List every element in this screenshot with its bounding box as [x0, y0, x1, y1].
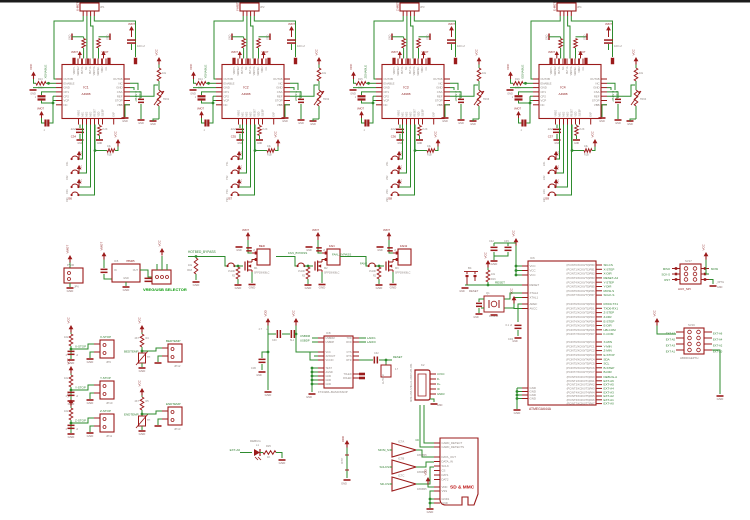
svg-text:XENABLE: XENABLE [44, 65, 48, 79]
wire BEDTEMP to connector [142, 348, 162, 351]
svg-text:RESET: RESET [255, 108, 257, 116]
wire gnd Y [193, 87, 216, 89]
svg-text:SENSE1: SENSE1 [258, 66, 260, 76]
svg-text:6L1: 6L1 [290, 339, 295, 342]
svg-text:EXT-A2: EXT-A2 [713, 344, 723, 348]
svg-text:JP6: JP6 [74, 285, 79, 289]
wire X motor OUT2B [54, 16, 83, 79]
svg-text:R2: R2 [373, 275, 377, 278]
svg-text:ENDTEMP: ENDTEMP [124, 413, 139, 417]
svg-text:JP10: JP10 [106, 401, 113, 405]
wire cp2 X [53, 95, 56, 97]
jumper MS3 X [71, 186, 73, 188]
svg-text:100 uf: 100 uf [137, 44, 145, 48]
svg-text:10k: 10k [639, 72, 644, 75]
resistor R2B 10k sleep [255, 125, 267, 151]
resistor R4 4.7k BEDTEMP [141, 333, 143, 335]
svg-text:GND: GND [87, 434, 95, 438]
wire VMOT FAN2 [389, 240, 393, 253]
svg-text:DAT2: DAT2 [442, 478, 449, 482]
power VCC selector [160, 248, 165, 252]
svg-text:10k: 10k [64, 410, 69, 413]
svg-text:GND: GND [341, 482, 347, 486]
svg-text:JS7: JS7 [227, 197, 232, 201]
svg-text:DATA_OUT: DATA_OUT [442, 455, 457, 459]
capacitor bulk Y 100uf [287, 39, 296, 41]
capacitor C22 logic [202, 92, 217, 95]
svg-text:GND: GND [530, 397, 536, 401]
op-amp IC2 A4988 body [222, 65, 284, 119]
wire cp2 E [530, 95, 533, 97]
wire E motor OUT2B [531, 16, 560, 79]
svg-text:GND: GND [298, 122, 304, 125]
pads Z driver top pins [392, 58, 395, 65]
ground trimmer X [150, 120, 157, 122]
jumper gate M2 [297, 265, 299, 267]
ground IC8 [309, 393, 316, 395]
svg-text:GND: GND [470, 123, 476, 126]
wire vcp Z [373, 100, 376, 102]
svg-text:VCC: VCC [81, 179, 83, 184]
svg-text:JP3: JP3 [420, 5, 425, 9]
svg-text:GND: GND [87, 401, 95, 405]
svg-text:VMOT: VMOT [37, 108, 44, 111]
connector BEDTEMP JP12 [168, 344, 182, 362]
ground BEDTEMP [139, 367, 146, 369]
ground X-STOP [68, 359, 75, 361]
svg-text:UVCC: UVCC [437, 372, 445, 376]
resistor 10k ref E [635, 65, 637, 69]
wire buffer B out [416, 462, 434, 467]
power VCC BEDTEMP [140, 325, 145, 329]
svg-text:VMOT1: VMOT1 [234, 66, 236, 75]
wire VCC IC6 [516, 246, 522, 276]
svg-text:SENSE1: SENSE1 [418, 66, 420, 76]
svg-text:MS2: MS2 [87, 111, 89, 116]
ground K2 shield [430, 399, 434, 402]
svg-text:SLEEP: SLEEP [263, 109, 265, 117]
svg-text:SCK-S: SCK-S [661, 273, 670, 277]
connector X-MOT JP1 [80, 3, 99, 11]
svg-text:GND: GND [87, 360, 95, 364]
capacitor ref Z [450, 92, 461, 98]
svg-text:(PCINT4/XCK0/T4)PA4: (PCINT4/XCK0/T4)PA4 [567, 390, 595, 394]
ground Z-STOP [68, 433, 75, 435]
ground logic X [30, 89, 37, 91]
svg-text:GND: GND [279, 461, 287, 465]
pins IC3 left [376, 78, 382, 80]
svg-text:GND: GND [507, 93, 513, 96]
svg-text:VCC: VCC [653, 309, 657, 316]
ground SD [427, 508, 434, 510]
svg-text:(PCINT3/XCK0/T3)PA3: (PCINT3/XCK0/T3)PA3 [567, 387, 595, 391]
resistor pulldown M1 10K [237, 265, 240, 268]
svg-text:C11: C11 [106, 66, 108, 71]
svg-text:VMOTIA: VMOTIA [413, 66, 416, 75]
svg-text:IC7B: IC7B [398, 457, 404, 461]
svg-text:.22uf: .22uf [70, 127, 76, 131]
wire regulator out [140, 270, 152, 277]
svg-text:VBB: VBB [437, 103, 443, 107]
wire debug gnd [276, 453, 282, 459]
svg-text:(PCINT0/XCK0/T0)PB0: (PCINT0/XCK0/T0)PB0 [566, 263, 595, 267]
svg-text:EXT-A5: EXT-A5 [666, 338, 676, 342]
capacitor C34 .22uf [79, 125, 81, 129]
svg-text:VBB: VBB [277, 103, 283, 107]
svg-text:VDD: VDD [424, 468, 428, 475]
resistor RXLED [359, 377, 365, 380]
svg-text:SFP30N06LC: SFP30N06LC [254, 272, 270, 275]
svg-text:CTS: CTS [347, 351, 352, 354]
svg-text:VMOT1: VMOT1 [394, 66, 396, 75]
svg-text:GND: GND [122, 120, 128, 123]
wire drain M1 [252, 259, 255, 262]
wire Z motor OUT2A [406, 16, 408, 59]
svg-text:VCC: VCC [401, 165, 403, 170]
svg-text:1: 1 [195, 97, 197, 99]
resistor sense ZA 0.2 [402, 39, 406, 49]
resistor sense EB 0.2 [576, 36, 588, 38]
svg-text:GND: GND [267, 34, 270, 40]
svg-text:VMOTIA: VMOTIA [93, 66, 96, 75]
pins IC6 left [522, 265, 528, 267]
power VCC MS3 X [77, 179, 81, 183]
connector Z-MOT JP3 [400, 3, 419, 11]
svg-text:.1: .1 [43, 130, 46, 132]
wire Z motor OUT1B [414, 16, 455, 57]
svg-text:VCC: VCC [138, 379, 142, 386]
svg-text:GND: GND [491, 262, 499, 266]
svg-text:GND: GND [459, 290, 465, 293]
wire vcp E [530, 100, 533, 102]
power VCC MS2 X [77, 165, 81, 169]
svg-text:NC: NC [246, 66, 248, 70]
svg-text:(PCINT4/XCK0/T4)PD4: (PCINT4/XCK0/T4)PD4 [566, 319, 595, 323]
capacitor crystal load [479, 299, 484, 302]
op-amp IC8 FT232RL body [324, 336, 353, 388]
svg-text:(PCINT6/XCK0/T6)PD6: (PCINT6/XCK0/T6)PD6 [566, 328, 595, 332]
ground source M2 [321, 272, 323, 283]
svg-text:YS1: YS1 [226, 161, 229, 166]
svg-text:GND: GND [319, 286, 327, 290]
wire Y motor OUT1B [254, 16, 295, 57]
svg-text:YENABLE: YENABLE [204, 65, 208, 79]
svg-text:BEDTEMP: BEDTEMP [166, 339, 181, 343]
svg-text:GND: GND [326, 383, 332, 386]
power VCC MS3 Y [237, 179, 241, 183]
svg-text:TR02: TR02 [323, 98, 330, 101]
capacitor C45 [507, 243, 509, 246]
svg-text:R13: R13 [38, 78, 43, 81]
svg-text:8.2K: 8.2K [263, 128, 268, 131]
svg-text:VMOT: VMOT [288, 23, 295, 26]
svg-text:B-DIR: B-DIR [604, 370, 613, 374]
svg-text:GND: GND [417, 143, 422, 145]
svg-text:VMOT: VMOT [242, 229, 249, 232]
svg-text:GND: GND [193, 283, 201, 287]
svg-text:AUTO-R: AUTO-R [382, 374, 385, 384]
ground connector BEDTEMP [158, 356, 162, 362]
svg-text:NC: NC [563, 66, 565, 70]
ground trimmer E [627, 120, 634, 122]
ground IC6 [514, 409, 521, 411]
svg-text:C36: C36 [251, 366, 257, 370]
svg-text:.1: .1 [363, 130, 366, 132]
svg-text:FAN2: FAN2 [360, 262, 367, 266]
svg-text:VCC: VCC [81, 165, 83, 170]
svg-text:VMOT: VMOT [312, 229, 319, 232]
capacitor C24 logic [519, 92, 534, 95]
svg-text:JP2: JP2 [260, 5, 265, 9]
svg-text:uf: uf [266, 328, 268, 331]
svg-text:JP11: JP11 [106, 434, 113, 438]
top border bar [0, 0, 750, 3]
wire debug [240, 452, 252, 454]
resistor sense EA 0.2 [559, 39, 563, 49]
resistor pulldown M2 10K [307, 265, 310, 268]
svg-text:(PCINT5/XCK0/T5)PD5: (PCINT5/XCK0/T5)PD5 [566, 324, 595, 328]
svg-text:MOSI_S: MOSI_S [378, 448, 389, 452]
ground snubber BED [236, 246, 243, 248]
svg-text:USBDM: USBDM [300, 334, 311, 338]
svg-text:JP12: JP12 [174, 364, 181, 368]
pins IC2 bottom [238, 119, 240, 125]
svg-text:(PCINT2/XCK0/T2)PD2: (PCINT2/XCK0/T2)PD2 [566, 311, 595, 315]
svg-text:(PCINT3/XCK0/T3)PB3: (PCINT3/XCK0/T3)PB3 [566, 276, 595, 280]
power VDD sd [426, 477, 431, 481]
net label RXD1 [359, 341, 366, 343]
svg-text:.22uf: .22uf [547, 127, 553, 131]
svg-text:GND: GND [229, 34, 232, 40]
jumper MS3 Z [391, 186, 393, 188]
resistor 10k ref Z [478, 65, 480, 69]
svg-text:OUT: OUT [133, 269, 139, 272]
wire vcp Y [213, 100, 216, 102]
svg-text:.22uf: .22uf [230, 127, 236, 131]
svg-text:RXD: RXD [346, 341, 351, 344]
jumper MS2 Y [231, 172, 233, 174]
power VMOT input [68, 255, 73, 259]
ground trimmer Y [310, 120, 317, 122]
op-amp IC5 78M05 regulator [112, 264, 140, 282]
svg-text:.1: .1 [203, 130, 206, 132]
svg-text:VBB: VBB [594, 103, 600, 107]
svg-text:GND: GND [326, 379, 332, 382]
svg-text:VCC: VCC [558, 151, 560, 156]
svg-text:ES1: ES1 [543, 161, 546, 166]
svg-text:2: 2 [66, 354, 68, 357]
power VCC MS1 E [554, 151, 558, 155]
svg-text:(PCINT6/XCK0/T6)PC6: (PCINT6/XCK0/T6)PC6 [566, 366, 595, 370]
pins IC8 left [318, 337, 324, 339]
svg-text:VMOT1: VMOT1 [74, 66, 76, 75]
op-amp IC7C buffer [392, 477, 416, 491]
wire Y motor OUT2A [246, 16, 248, 59]
capacitor vcp X [42, 118, 45, 123]
connector BED [257, 249, 270, 265]
power VCC Z-STOP [69, 399, 74, 403]
svg-text:(PCINT6/XCK0/T6)PB6: (PCINT6/XCK0/T6)PB6 [566, 289, 595, 293]
power VCC sleep Y [276, 139, 281, 143]
svg-text:EXP: EXP [274, 111, 276, 116]
svg-text:EXT-A6: EXT-A6 [230, 448, 241, 452]
svg-text:MS1: MS1 [83, 111, 85, 116]
resistor pullup X-STOP 10k [70, 333, 72, 335]
svg-text:R4: R4 [146, 337, 150, 340]
ground reset pull Y [256, 139, 263, 141]
svg-text:IC7P: IC7P [340, 458, 344, 464]
power VCC MS1 X [77, 151, 81, 155]
svg-text:GND: GND [717, 397, 725, 401]
svg-text:(PCINT7/XCK0/T7)PB7: (PCINT7/XCK0/T7)PB7 [566, 293, 595, 297]
svg-text:78M05: 78M05 [126, 259, 135, 263]
svg-text:RXLED: RXLED [343, 377, 352, 380]
svg-text:R18: R18 [187, 268, 192, 272]
svg-text:uf: uf [76, 354, 78, 357]
svg-text:OUT2A: OUT2A [241, 66, 244, 74]
svg-text:VMOT: VMOT [514, 108, 521, 111]
resistor reset pull X 8.2k [99, 125, 101, 126]
svg-text:F-COM: F-COM [604, 332, 614, 336]
svg-text:VSS: VSS [442, 489, 448, 493]
svg-text:VREG: VREG [399, 110, 401, 117]
svg-text:YS3: YS3 [226, 189, 229, 194]
svg-text:1: 1 [35, 97, 37, 99]
svg-text:SCLK-S: SCLK-S [604, 293, 615, 297]
op-amp IC6 ATMEGA644A body [528, 261, 596, 405]
resistor pulldown M3 10K [378, 265, 381, 268]
svg-text:JS9: JS9 [544, 197, 549, 201]
svg-text:SCLK: SCLK [442, 464, 449, 468]
svg-text:C40: C40 [272, 339, 277, 342]
svg-text:C36: C36 [391, 135, 397, 139]
power VDD IC8 [266, 318, 271, 322]
svg-text:GND: GND [326, 375, 332, 378]
wire Y step dir [290, 83, 298, 90]
connector FAN2 [398, 249, 411, 265]
pins IC3 bottom [398, 119, 400, 125]
op-amp IC4 A4988 body [539, 65, 601, 119]
power VCC MS3 Z [397, 179, 401, 183]
power VCC MS2 Y [237, 165, 241, 169]
pads X driver top pins [72, 58, 75, 65]
svg-text:XS1: XS1 [66, 161, 69, 166]
svg-text:SV17: SV17 [685, 259, 692, 263]
svg-text:OUT1A: OUT1A [566, 66, 569, 74]
svg-text:SD-CS: SD-CS [380, 482, 389, 486]
svg-text:C45: C45 [504, 239, 509, 243]
svg-text:B4: B4 [468, 266, 472, 270]
svg-text:100 uf: 100 uf [297, 44, 305, 48]
resistor sense YB 0.2 [259, 36, 271, 38]
jumper AUTO-RST [385, 360, 387, 365]
wire enable X [46, 82, 56, 84]
svg-text:GND: GND [599, 120, 605, 123]
svg-text:OUT1A: OUT1A [249, 66, 252, 74]
svg-text:NC: NC [86, 66, 88, 70]
svg-text:(PCINT5/XCK0/T5)PA5: (PCINT5/XCK0/T5)PA5 [567, 394, 595, 398]
svg-text:JP4: JP4 [577, 5, 582, 9]
resistor sense XB 0.2 [99, 36, 111, 38]
resistor reset pull Z 8.2k [419, 125, 421, 126]
svg-text:VMOT: VMOT [128, 23, 135, 26]
pad Y out1b [294, 58, 297, 65]
svg-text:GND: GND [265, 393, 273, 397]
svg-text:JP9: JP9 [106, 360, 111, 364]
capacitor C32 100n [374, 357, 376, 364]
svg-text:VCC: VCC [241, 179, 243, 184]
svg-text:TEST: TEST [326, 367, 333, 370]
svg-text:R1B: R1B [267, 154, 272, 157]
svg-text:RESET: RESET [572, 108, 574, 116]
power VMOT regulator [102, 252, 107, 256]
wire Y motor OUT2B [214, 16, 243, 79]
svg-text:3V3OUT: 3V3OUT [326, 355, 336, 358]
jumper MS3 Y [231, 186, 233, 188]
svg-text:8.2K: 8.2K [103, 128, 108, 131]
wire VMOT BED [248, 240, 252, 253]
resistor 10k ref X [158, 65, 160, 69]
capacitor ref E [607, 92, 618, 98]
svg-text:GND: GND [717, 286, 723, 289]
svg-text:ZENABLE: ZENABLE [364, 65, 368, 79]
svg-text:VMOTIA: VMOTIA [570, 66, 573, 75]
svg-text:HOTBED_BYPASS: HOTBED_BYPASS [188, 250, 216, 254]
svg-text:M2: M2 [324, 267, 328, 270]
svg-text:10k: 10k [162, 72, 167, 75]
svg-text:MS2: MS2 [564, 111, 566, 116]
svg-text:MS1: MS1 [243, 111, 245, 116]
resistor pullup Z-STOP 10k [70, 407, 72, 409]
jumper MS1 Y [231, 158, 233, 160]
svg-text:(PCINT7/XCK0/T7)PD7: (PCINT7/XCK0/T7)PD7 [566, 332, 595, 336]
connector Y-STOP JP10 [100, 381, 114, 399]
svg-text:A4988: A4988 [82, 92, 91, 96]
svg-text:TR04: TR04 [640, 98, 647, 101]
op-amp IC7A buffer [392, 443, 416, 457]
capacitor snubber FAN [316, 247, 322, 249]
resistor R11 100k enable [36, 82, 46, 86]
wires Z microstep bus [399, 125, 403, 160]
svg-text:VCC: VCC [67, 357, 71, 364]
wire E ref [607, 85, 635, 96]
svg-text:GND: GND [306, 249, 312, 252]
ground ref cap Y [298, 119, 305, 121]
capacitor C35 .22uf [239, 125, 241, 129]
power VCC sleep X [116, 139, 121, 143]
svg-text:EENABLE: EENABLE [521, 65, 525, 79]
svg-text:VCC: VCC [326, 351, 331, 354]
ground connector Z-STOP [90, 426, 94, 432]
svg-text:C11: C11 [266, 66, 268, 71]
svg-text:10k: 10k [64, 377, 69, 380]
svg-text:10K: 10K [231, 270, 236, 273]
ground C36 [397, 139, 404, 141]
svg-text:.1: .1 [520, 130, 523, 132]
ground IC7P [344, 479, 351, 481]
svg-text:CS: CS [442, 469, 446, 473]
svg-text:GND: GND [236, 249, 242, 252]
ground PWR [67, 287, 74, 289]
svg-text:SD & MMC: SD & MMC [450, 485, 475, 491]
svg-text:BEDTEMP: BEDTEMP [124, 350, 139, 354]
ground pulldown M3 [376, 284, 383, 286]
ground reset pull X [96, 139, 103, 141]
svg-text:R14: R14 [198, 78, 203, 81]
svg-text:10k: 10k [584, 145, 589, 148]
capacitor C36 .22uf [399, 125, 401, 129]
wire gnd Z [353, 87, 376, 89]
